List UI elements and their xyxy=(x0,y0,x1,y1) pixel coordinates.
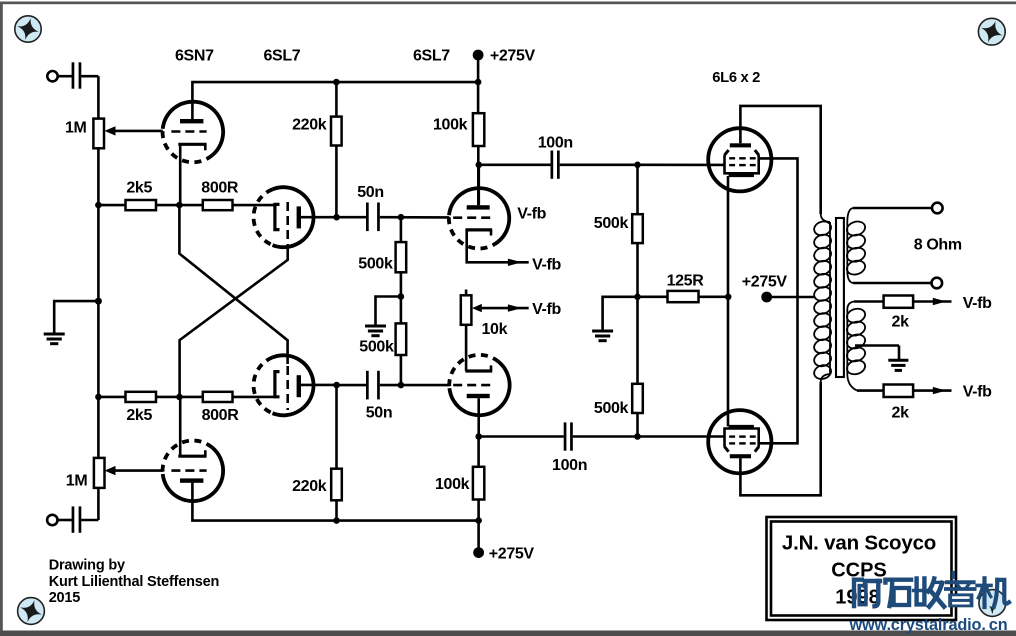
svg-text:+275V: +275V xyxy=(490,48,536,65)
svg-text:1M: 1M xyxy=(65,120,87,137)
svg-text:220k: 220k xyxy=(292,117,327,134)
svg-text:6SN7: 6SN7 xyxy=(175,48,214,65)
svg-text:6SL7: 6SL7 xyxy=(264,48,301,65)
svg-text:V-fb: V-fb xyxy=(532,301,561,318)
svg-text:2k5: 2k5 xyxy=(126,407,152,424)
svg-text:V-fb: V-fb xyxy=(963,384,992,401)
svg-text:800R: 800R xyxy=(202,407,240,424)
svg-text:10k: 10k xyxy=(482,321,508,338)
svg-text:50n: 50n xyxy=(357,184,384,201)
svg-text:8 Ohm: 8 Ohm xyxy=(914,237,962,254)
svg-text:6SL7: 6SL7 xyxy=(413,48,450,65)
svg-text:500k: 500k xyxy=(594,400,629,417)
svg-text:www.crystalradio. cn: www.crystalradio. cn xyxy=(849,616,1008,634)
svg-text:+275V: +275V xyxy=(489,546,535,563)
svg-text:V-fb: V-fb xyxy=(532,256,561,273)
svg-text:J.N. van Scoyco: J.N. van Scoyco xyxy=(782,532,936,555)
svg-text:50n: 50n xyxy=(366,405,393,422)
svg-text:125R: 125R xyxy=(667,272,705,289)
svg-text:100k: 100k xyxy=(433,117,468,134)
svg-text:6L6 x 2: 6L6 x 2 xyxy=(712,70,760,86)
svg-text:500k: 500k xyxy=(359,339,394,356)
svg-text:2k5: 2k5 xyxy=(126,179,152,196)
svg-text:Drawing by: Drawing by xyxy=(49,558,125,574)
svg-text:500k: 500k xyxy=(358,256,393,273)
svg-text:220k: 220k xyxy=(292,478,327,495)
svg-text:100n: 100n xyxy=(552,457,587,474)
svg-text:Kurt Lilienthal Steffensen: Kurt Lilienthal Steffensen xyxy=(49,574,219,590)
svg-text:500k: 500k xyxy=(594,215,629,232)
svg-text:100k: 100k xyxy=(435,476,470,493)
svg-text:2015: 2015 xyxy=(49,590,81,606)
svg-text:800R: 800R xyxy=(201,179,239,196)
svg-text:1M: 1M xyxy=(66,473,88,490)
svg-text:+275V: +275V xyxy=(742,273,788,290)
svg-text:2k: 2k xyxy=(892,314,910,331)
svg-text:V-fb: V-fb xyxy=(517,206,546,223)
svg-text:V-fb: V-fb xyxy=(963,295,992,312)
svg-text:100n: 100n xyxy=(538,135,573,152)
svg-text:2k: 2k xyxy=(892,405,910,422)
